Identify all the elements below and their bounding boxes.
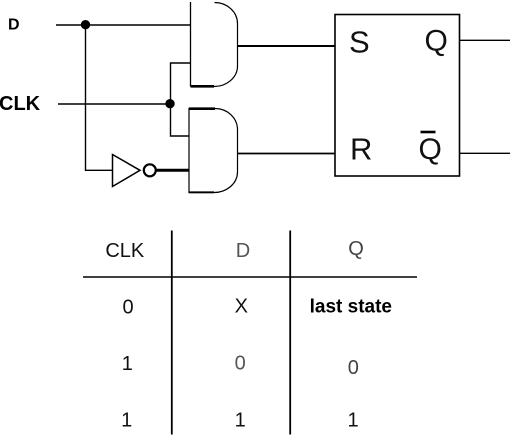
wire CLK up to AND1 input <box>171 63 191 104</box>
svg-text:0: 0 <box>348 357 359 379</box>
svg-text:S: S <box>349 25 370 60</box>
table column separator line 1 <box>171 231 173 435</box>
svg-text:CLK: CLK <box>0 93 41 115</box>
svg-text:X: X <box>235 296 248 318</box>
wire AND1 output to S input <box>238 45 336 47</box>
inverter U3 <box>113 155 156 187</box>
svg-text:D: D <box>236 240 250 262</box>
svg-text:0: 0 <box>235 353 246 375</box>
svg-text:0: 0 <box>122 297 133 319</box>
svg-text:1: 1 <box>122 353 133 375</box>
wire D horizontal <box>56 24 190 26</box>
wire AND2 output to R input <box>238 153 336 155</box>
table column separator line 2 <box>289 231 291 435</box>
wire CLK down to AND2 input <box>171 104 190 136</box>
wire inverter output to AND2 input <box>156 169 189 172</box>
node D junction <box>81 20 90 29</box>
and-gate U2 (bottom) <box>189 109 238 193</box>
svg-text:last state: last state <box>310 297 392 318</box>
svg-text:Q: Q <box>425 25 448 58</box>
svg-text:R: R <box>350 132 372 167</box>
svg-text:1: 1 <box>121 410 132 432</box>
wire D vertical down to inverter <box>86 25 113 170</box>
svg-text:Q: Q <box>419 133 442 166</box>
wire CLK horizontal <box>58 103 171 105</box>
svg-text:1: 1 <box>347 409 358 431</box>
table header underline <box>83 276 417 278</box>
svg-text:CLK: CLK <box>105 240 145 262</box>
svg-text:1: 1 <box>235 409 246 431</box>
wire Q output <box>460 39 510 41</box>
wire Qbar output <box>460 152 510 154</box>
and-gate U1 (top) <box>191 2 238 87</box>
node CLK junction <box>165 99 174 108</box>
sr-latch U4 box <box>335 15 460 177</box>
svg-text:D: D <box>8 17 20 34</box>
svg-text:Q: Q <box>348 238 364 260</box>
